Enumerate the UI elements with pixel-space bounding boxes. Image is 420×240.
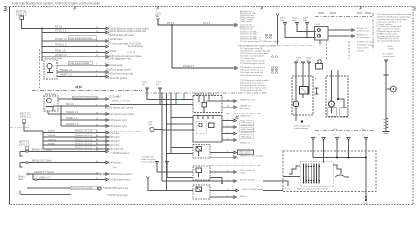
pin number texts left column [96, 27, 98, 180]
connector Q171 [232, 171, 237, 174]
wire y117.5 bus to box B [171, 117, 193, 119]
svg-text:SW 1.5: SW 1.5 [66, 103, 75, 106]
box D internals [196, 168, 202, 173]
divider dash-dot y94.5 [145, 92, 268, 94]
svg-text:SW/BL: SW/BL [48, 143, 56, 145]
wire branch y106 [53, 105, 103, 107]
text block TB3 [240, 47, 271, 65]
fan motor circle [329, 101, 335, 107]
svg-text:2: 2 [96, 104, 97, 106]
svg-text:SW/RT: SW/RT [48, 131, 56, 133]
lower row y153 with inline connector [20, 150, 103, 152]
terminal pair marks [266, 34, 278, 73]
svg-text:S229 fuse 29 10A —: S229 fuse 29 10A — [240, 33, 260, 36]
svg-text:GE/SW 0.5 T10a/7: GE/SW 0.5 T10a/7 [34, 171, 55, 174]
junction dot x302 [301, 120, 303, 122]
connector arrow down x337 [336, 138, 339, 143]
svg-text:J17 relay: J17 relay [240, 107, 250, 110]
wire y124 bus to box B [167, 123, 194, 125]
pin bundle dots bottom [303, 180, 320, 182]
svg-text:J17 fuel pump relay, J271 Motr: J17 fuel pump relay, J271 Motronic suppl… [240, 40, 280, 43]
central bus vertical 1 [161, 93, 163, 181]
svg-text:T121/70 coil 4: T121/70 coil 4 [105, 145, 120, 147]
text block TB2 [240, 31, 280, 44]
vertical bus B2 [60, 106, 62, 126]
svg-text:87: 87 [227, 99, 229, 101]
connector S30 [350, 29, 355, 32]
wire K1 out y76.5 [57, 76, 103, 78]
svg-text:30a: 30a [155, 15, 160, 18]
svg-text:Main relay: Main relay [45, 93, 57, 96]
svg-text:6: 6 [227, 170, 228, 172]
connector arrow down x308 [302, 62, 305, 67]
pin arrowheads [303, 182, 320, 184]
connector A32 [103, 31, 109, 34]
svg-text:GN/SW 0.5: GN/SW 0.5 [240, 115, 252, 117]
svg-text:T121/26 injector cyl 4: T121/26 injector cyl 4 [105, 125, 128, 128]
connector arrow down x167 [166, 162, 169, 167]
svg-text:T121/3 ignition coil power: T121/3 ignition coil power [108, 34, 134, 37]
svg-text:T121/21: T121/21 [108, 51, 117, 53]
svg-text:3: 3 [227, 132, 228, 134]
svg-text:Ignition coil 3 cyl: Ignition coil 3 cyl [76, 138, 93, 141]
relay box A [193, 96, 222, 113]
svg-text:T6z/3 fuel level sensor sig: T6z/3 fuel level sensor sig [106, 73, 133, 76]
stub hook y156 [20, 152, 23, 157]
svg-text:2: 2 [96, 64, 97, 66]
wire x157 down then right y171.5 [157, 167, 193, 172]
inline connector symbol y87 [75, 86, 82, 88]
wire from F1 down [22, 19, 103, 28]
connector T68 [233, 67, 238, 70]
wire K2 leads [47, 111, 49, 114]
connector R190 [234, 189, 239, 192]
connector N136 [232, 139, 237, 142]
svg-text:RT/GN 1.5: RT/GN 1.5 [55, 44, 67, 47]
border tick 4 [360, 6, 362, 9]
svg-text:GN 0.5 T10a/2 shield: GN 0.5 T10a/2 shield [242, 189, 263, 191]
box E circle [196, 187, 202, 192]
wire y130 bus to box B [162, 129, 195, 131]
svg-text:SW/GE: SW/GE [48, 135, 56, 137]
wire branch y52.5 [42, 52, 103, 54]
label box ground [71, 186, 97, 190]
svg-text:Ignition coil 5 cyl: Ignition coil 5 cyl [76, 146, 93, 149]
connector C120 [103, 119, 109, 122]
connector S36 [350, 35, 355, 38]
svg-text:RT/BL 1.5: RT/BL 1.5 [55, 50, 66, 53]
connector C101 symbol [156, 18, 159, 20]
connector C114 [103, 113, 109, 116]
bus join y177-183 [32, 174, 34, 180]
divider dash-dot y130.5 [315, 130, 375, 132]
svg-text:Motronic engine control module: Motronic engine control module [297, 188, 328, 191]
svg-text:J293 fan ctrl: J293 fan ctrl [357, 29, 369, 32]
svg-text:T6z: T6z [361, 129, 365, 131]
svg-text:26: 26 [96, 124, 98, 126]
text block TB5 [240, 79, 270, 92]
svg-text:sensor heat: sensor heat [383, 55, 395, 58]
svg-text:speed sensor: speed sensor [241, 123, 254, 126]
fan wire L x341 [338, 70, 344, 108]
wire y181 cont [232, 180, 237, 183]
boundary dash vertical x349 [348, 41, 350, 59]
relay K2 circle [47, 98, 52, 103]
connector E183 [103, 178, 109, 181]
left small symbol near fan [315, 88, 319, 94]
connector N123 [232, 126, 237, 129]
svg-text:6: 6 [96, 97, 97, 99]
svg-text:Ignition coil 1 cyl: Ignition coil 1 cyl [76, 130, 93, 133]
svg-text:T121/44 sensor: T121/44 sensor [105, 161, 121, 164]
svg-text:T121/62 input: T121/62 input [108, 38, 122, 41]
svg-text:( ) ( ) ( ): ( ) ( ) ( ) [127, 51, 135, 54]
fuel pump relay K1 box [44, 60, 57, 79]
svg-text:Ignition coil 4 cyl: Ignition coil 4 cyl [76, 142, 93, 145]
border frame left edge [9, 7, 11, 205]
text block TB1 [240, 10, 256, 31]
fuse circle 1 [318, 29, 321, 32]
boundary dash vertical x327 [326, 40, 328, 59]
wire branch y56.8 [42, 56, 103, 58]
svg-text:SW/GE 1.0: SW/GE 1.0 [60, 69, 73, 72]
connector P157 [232, 151, 237, 154]
svg-text:T4k/2: T4k/2 [240, 172, 246, 174]
svg-text:BR/WS 0.5 T10a/5: BR/WS 0.5 T10a/5 [32, 149, 53, 152]
svg-text:5: 5 [96, 70, 97, 72]
svg-text:T40/13 load: T40/13 load [240, 21, 252, 23]
connector T25 [233, 24, 238, 27]
sensor symbol x148 [146, 177, 149, 179]
wire from F2 [24, 123, 43, 131]
svg-text:J271: J271 [195, 94, 201, 96]
svg-text:T121/43 diagnosis K-line: T121/43 diagnosis K-line [106, 59, 132, 61]
wire y181 long [162, 180, 232, 182]
svg-text:T121: T121 [285, 189, 291, 191]
connector C99 [103, 98, 109, 128]
svg-text:T10a: T10a [333, 129, 339, 131]
svg-text:T121/18 injector cyl 3: T121/18 injector cyl 3 [105, 119, 128, 122]
svg-text:T6z/5 fuel gauge sender: T6z/5 fuel gauge sender [106, 68, 131, 71]
ground wire from box [365, 192, 367, 198]
lower row y183 [33, 178, 103, 180]
junction dot fan [337, 98, 339, 100]
connector B72 [103, 71, 109, 74]
node bus junction [41, 28, 43, 30]
connector D132 [103, 131, 109, 134]
connector A52 [103, 51, 109, 54]
svg-text:RT/GE 1.5: RT/GE 1.5 [55, 30, 67, 33]
svg-text:8: 8 [227, 189, 228, 191]
label box K2 out [72, 96, 97, 99]
fan box V7 [326, 76, 348, 117]
wire vertical bus B1 [41, 29, 43, 62]
svg-text:T121/10 injector cyl 2 contro: T121/10 injector cyl 2 control [105, 113, 135, 116]
left jog symbol [289, 166, 300, 174]
boundary dash-dot y16.5 [315, 16, 372, 18]
inline connector pair y117 [236, 116, 239, 119]
svg-text:SW/WS 0.5 sensor gnd: SW/WS 0.5 sensor gnd [240, 155, 264, 158]
connector arrow down x314 [308, 62, 311, 67]
connector A46 [103, 45, 109, 48]
wire trunk vertical x172 [171, 25, 173, 68]
svg-text:SW/GE 1.0 J17: SW/GE 1.0 J17 [240, 99, 256, 101]
svg-text:21: 21 [96, 51, 98, 53]
wire module down to dot [295, 107, 297, 121]
svg-text:T121/64 coil 5 ctrl: T121/64 coil 5 ctrl [105, 148, 124, 151]
svg-text:T10a 10-pin connector: T10a 10-pin connector [240, 74, 262, 77]
svg-text:Fuel pump relay mod.: Fuel pump relay mod. [70, 37, 93, 40]
wire bundle drop greens [176, 93, 214, 105]
wire fuse out y36 [328, 35, 350, 37]
connector M107 [232, 100, 237, 103]
connector D rows [103, 131, 109, 150]
inner pin block box [300, 161, 333, 186]
bracket bus x221 [221, 121, 223, 141]
arrow end y186 [221, 183, 223, 185]
right jog symbol [333, 165, 341, 174]
fusebox top right [315, 27, 329, 41]
rail stub to circle [386, 88, 390, 90]
divider dash-dot y165 [210, 164, 262, 166]
A/C component circle [318, 60, 322, 64]
vertical bus B3 [42, 131, 44, 149]
svg-text:36: 36 [96, 178, 98, 180]
svg-text:71: 71 [96, 131, 98, 133]
wire branch y41 [42, 40, 103, 42]
svg-text:G61 knock: G61 knock [241, 136, 252, 138]
svg-text:65: 65 [96, 135, 98, 137]
connector E177 [103, 173, 109, 176]
svg-text:RT/SW 1.5 supply: RT/SW 1.5 supply [357, 41, 375, 43]
wire y157 box C out [210, 156, 232, 158]
svg-text:70: 70 [96, 143, 98, 145]
connector arrow down x307 [306, 23, 309, 28]
svg-text:GE/BL 0.5: GE/BL 0.5 [39, 177, 51, 180]
svg-text:T121/36 knock sens 2: T121/36 knock sens 2 [108, 179, 131, 181]
svg-text:SW/RT 1.0: SW/RT 1.0 [60, 74, 72, 77]
svg-text:S: hot at all times X: hot: S: hot at all times X: hot in run Z: ign… [240, 45, 278, 48]
svg-text:SW/BL 1.5 T121/5: SW/BL 1.5 T121/5 [112, 101, 131, 103]
junction bus y103 [161, 104, 163, 106]
bracket branch y117 [222, 120, 232, 122]
wire K1 out y72 [57, 71, 103, 73]
connector arrow down x285 [284, 23, 287, 28]
pin bundle dots top [303, 166, 320, 168]
box B pins [198, 116, 213, 119]
relay box C [193, 145, 210, 159]
lower row y166 with inline connector [20, 161, 103, 163]
wire y157.5 box C to connector [210, 152, 232, 154]
junction at x172 [171, 24, 173, 26]
svg-text:A97--: A97-- [388, 45, 394, 48]
svg-text:7: 7 [227, 179, 228, 181]
connector N117 [232, 119, 237, 141]
connector E166 [103, 161, 109, 164]
wire x285 to y37.5 [285, 28, 316, 38]
rail hash marks [384, 118, 389, 128]
ground wire bottom-left [27, 187, 71, 189]
right rail vertical [385, 62, 387, 131]
box B relay circle [199, 123, 203, 127]
svg-text:9: 9 [227, 195, 228, 197]
svg-text:244 ground connection: 244 ground connection [240, 89, 263, 92]
svg-text:RT 2.5: RT 2.5 [203, 22, 211, 25]
relay box E [193, 185, 210, 199]
connector A28 [103, 27, 109, 30]
G101 sensor circle [150, 127, 154, 131]
svg-text:Z1 heated oxygen sensor: Z1 heated oxygen sensor [240, 62, 265, 65]
connector E153 [103, 150, 109, 153]
stub hook y169 [20, 163, 23, 168]
wire G101 to bus [154, 129, 162, 131]
fuse F1 [20, 16, 24, 19]
svg-text:T121/67 sensor gnd: T121/67 sensor gnd [107, 194, 128, 197]
section divider dash-dot y90.5 [32, 90, 142, 92]
svg-text:12: 12 [96, 27, 98, 29]
svg-text:30A: 30A [303, 19, 307, 22]
svg-text:Hall: Hall [148, 124, 152, 126]
svg-text:T6z/6 sender ground: T6z/6 sender ground [106, 77, 128, 80]
svg-text:S233 fuse 33 30A — o: S233 fuse 33 30A — o [240, 37, 262, 40]
central bus vertical 3 [170, 93, 172, 154]
svg-text:RT 2.5: RT 2.5 [55, 26, 63, 29]
svg-text:T10a/1 E33: T10a/1 E33 [357, 47, 369, 49]
svg-text:T121/65 coil 2: T121/65 coil 2 [105, 137, 120, 139]
wire y153 bus to box C [167, 153, 194, 155]
ground dot [365, 199, 367, 201]
wires into relay module [295, 67, 297, 101]
rail circle component [390, 86, 396, 92]
connector D141 [103, 140, 109, 143]
svg-text:hot at all times: hot at all times [128, 45, 144, 48]
relay box B [193, 116, 222, 143]
wire branch y46.5 [42, 46, 103, 48]
fuse F2 [22, 120, 26, 123]
coil box dark [300, 87, 309, 95]
bracket branch y136 [222, 139, 232, 141]
wire branch y149 [43, 148, 103, 150]
border tick 1 [74, 6, 76, 9]
svg-text:12 Camshaft adjustment: 12 Camshaft adjustment [377, 40, 401, 43]
connector A56 [103, 55, 109, 58]
svg-text:SW/WS 1.0: SW/WS 1.0 [66, 123, 79, 126]
wire branch y145 [43, 144, 103, 146]
section divider dash-dot y128.5 [10, 126, 31, 128]
connector D145 [103, 144, 109, 147]
svg-text:T121/71 coil 1: T121/71 coil 1 [105, 133, 120, 135]
svg-text:drain: drain [18, 178, 24, 181]
wire x307 to y37.5 [306, 28, 308, 38]
relay K1 coil circle [47, 63, 52, 68]
connector arrow down x157 [156, 162, 159, 167]
relay circle in module [293, 101, 299, 107]
text block TB4 [240, 66, 266, 77]
svg-text:17: 17 [96, 45, 98, 47]
svg-text:8: 8 [414, 7, 417, 13]
pin bundle verticals [304, 164, 320, 184]
pin number texts mid column [227, 99, 229, 197]
svg-text:18: 18 [96, 118, 98, 120]
svg-text:3: 3 [3, 4, 7, 13]
wire into box left [283, 176, 300, 178]
svg-text:1: 1 [227, 119, 228, 121]
svg-text:sensor signal: sensor signal [141, 160, 154, 163]
boundary dashed vertical x277 [276, 14, 279, 16]
relay box D [193, 166, 210, 180]
relay K2 box [44, 96, 58, 111]
svg-text:4: 4 [227, 138, 228, 140]
bracket shape [335, 175, 349, 177]
column header dashes right [318, 12, 371, 14]
A/C component box [316, 64, 323, 70]
svg-text:58: 58 [96, 150, 98, 152]
svg-text:WS 0.5 T10a/8: WS 0.5 T10a/8 [240, 179, 255, 181]
svg-text:S232: S232 [315, 24, 321, 26]
wire branch y114 [48, 113, 103, 115]
svg-text:control module: control module [294, 127, 309, 130]
connector B76 [103, 75, 109, 78]
svg-text:T121/2 injector cyl 1 control: T121/2 injector cyl 1 control [105, 106, 134, 109]
connector arrow down x297 [296, 23, 299, 28]
rail tick y75 [384, 74, 389, 76]
svg-text:3: 3 [96, 39, 97, 41]
wire branch y32.5 [42, 32, 103, 34]
lower row y177 [27, 173, 102, 175]
wires from arrows into box [312, 143, 314, 158]
legend boundary dashed vertical [372, 13, 374, 50]
svg-text:T6z 6-pin connector o-o: T6z 6-pin connector o-o [240, 71, 264, 74]
wire y103.5 horizontal [110, 104, 193, 106]
wire fuse out y30 [328, 29, 350, 31]
svg-text:Fuel injection/ignition system: Fuel injection/ignition system, Motronic… [12, 2, 100, 6]
connector C106 [103, 105, 109, 108]
fan box bottom small boxes [328, 108, 337, 117]
svg-text:SW/GN 1.0: SW/GN 1.0 [66, 111, 79, 114]
connector arrow down x366 [365, 138, 368, 143]
svg-text:S131 1.0: S131 1.0 [19, 142, 30, 146]
svg-text:3: 3 [96, 75, 97, 77]
divider dash-dot y44.8 [238, 45, 312, 47]
fan wire vertical x333 [331, 70, 333, 101]
svg-text:T121/78 coil 3: T121/78 coil 3 [105, 141, 120, 143]
bracket branch y130 [222, 133, 232, 135]
svg-text:Fuel pump module: Fuel pump module [70, 62, 90, 65]
svg-text:position sensor: position sensor [241, 130, 256, 133]
svg-text:BR 0.5: BR 0.5 [240, 196, 247, 198]
central bus vertical 2 [166, 93, 168, 191]
svg-text:SW/BL 1.0: SW/BL 1.0 [66, 117, 78, 120]
svg-text:T121/58 sensor in: T121/58 sensor in [111, 152, 130, 155]
wire from x147 down to y103 [147, 93, 193, 99]
connector arrow down x301 [295, 62, 298, 67]
svg-text:10: 10 [96, 112, 98, 114]
svg-text:SW/GN: SW/GN [48, 139, 56, 141]
wire branch y132.5 [43, 132, 103, 134]
label boxes lower rows [75, 129, 96, 132]
harness boundary dashed vertical [39, 49, 41, 88]
connector A41 [103, 40, 109, 43]
connector arrow down x348 [347, 138, 350, 143]
wire to eyelet [97, 187, 98, 189]
wire branch y137 [43, 136, 103, 138]
border frame [10, 7, 414, 205]
ground eyelet G34 [98, 187, 101, 190]
connector D149 [103, 148, 109, 151]
connector arrow down x313 [312, 138, 315, 143]
bracket branch y123.5 [222, 126, 232, 128]
svg-text:Ground connection: Ground connection [73, 187, 94, 190]
